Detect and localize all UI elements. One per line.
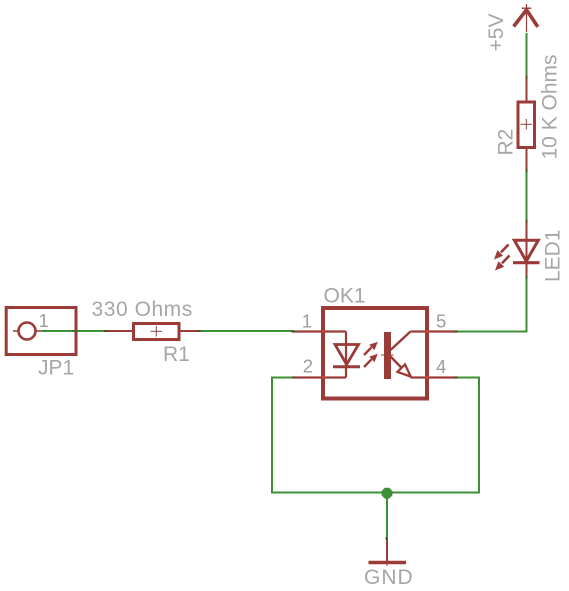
svg-text:R1: R1 (163, 343, 190, 366)
svg-text:330 Ohms: 330 Ohms (92, 298, 193, 321)
svg-text:R2: R2 (495, 129, 518, 156)
ground symbol GND (369, 539, 407, 566)
wire overlap marks (73, 76, 528, 540)
label GND (364, 566, 414, 589)
svg-text:1: 1 (39, 310, 49, 331)
wire GND net from OK1 pin 4 (456, 378, 479, 493)
wire GND net junction to GND symbol (386, 493, 388, 540)
label LED1 (542, 229, 565, 282)
OK1 phototransistor (381, 332, 411, 380)
OK1 pin number 5 (436, 311, 446, 332)
svg-text:4: 4 (436, 356, 446, 377)
OK1 internal LED branch (333, 332, 360, 378)
label R2 (495, 129, 518, 156)
OK1 light arrows (364, 342, 378, 367)
power symbol +5V (514, 4, 538, 32)
svg-text:JP1: JP1 (38, 357, 74, 380)
wire GND net from OK1 pin 2 (272, 378, 294, 493)
OK1 pin number 2 (303, 356, 313, 377)
label OK1 (324, 285, 366, 308)
svg-text:2: 2 (303, 356, 313, 377)
svg-text:+5V: +5V (485, 14, 508, 52)
svg-text:GND: GND (364, 566, 414, 589)
OK1 border crossing highlights (322, 330, 430, 378)
OK1 pin 1 line (293, 330, 346, 332)
wire net corner to OK1 pin 5 (456, 331, 528, 333)
resistor R2 (518, 75, 535, 171)
optocoupler OK1 box (323, 308, 427, 399)
OK1 pin number 4 (436, 356, 446, 377)
OK1 pin 2 line (293, 376, 346, 378)
label +5V (485, 14, 508, 52)
wire net LED1 down to corner (526, 275, 528, 333)
wire GND net bottom horizontal (271, 492, 480, 494)
wire net R2 to LED1 (526, 170, 528, 223)
wire +5V net vertical (526, 33, 528, 78)
svg-text:10 K Ohms: 10 K Ohms (539, 54, 562, 159)
wire net N$1 JP1 to R1 (42, 330, 106, 332)
junction GND net (382, 488, 393, 499)
value 10 K Ohms (539, 54, 562, 159)
value 330 Ohms (92, 298, 193, 321)
connector JP1 (6, 308, 76, 355)
resistor R1 (105, 324, 200, 340)
svg-text:5: 5 (436, 311, 446, 332)
JP1 pin number 1 (39, 310, 49, 331)
OK1 pin 4 line (411, 376, 458, 378)
OK1 pin 5 line (411, 330, 458, 332)
OK1 pin number 1 (302, 311, 312, 332)
svg-text:1: 1 (302, 311, 312, 332)
label R1 (163, 343, 190, 366)
diode LED1 (494, 221, 540, 277)
svg-text:LED1: LED1 (542, 229, 565, 282)
svg-text:OK1: OK1 (324, 285, 366, 308)
label JP1 (38, 357, 74, 380)
wire net N$2 R1 to OK1 pin 1 (199, 330, 294, 332)
